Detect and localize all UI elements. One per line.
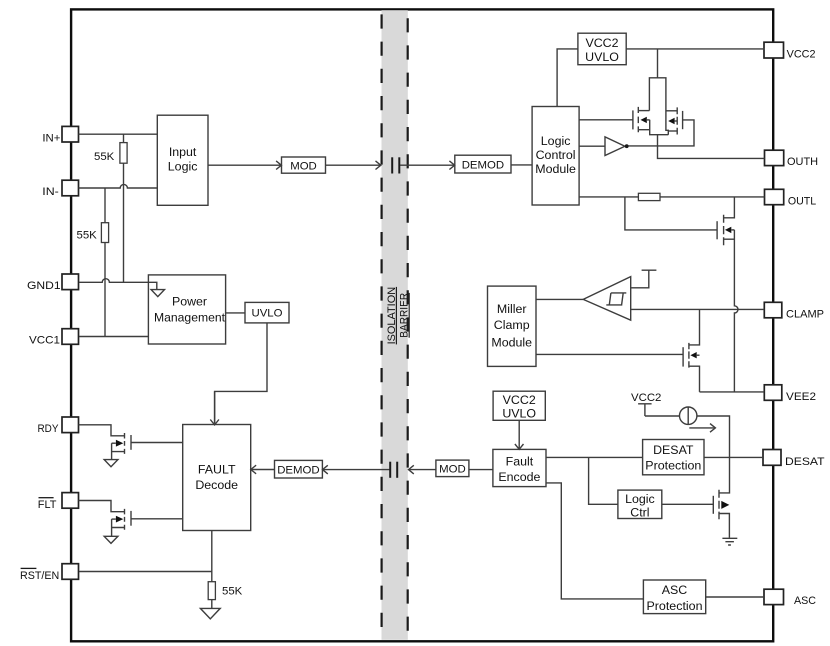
svg-text:DEMOD: DEMOD — [277, 465, 319, 477]
svg-text:IN+: IN+ — [42, 132, 60, 144]
transistor Q3 channel dashes — [723, 215, 725, 246]
wire Q6 gate to FAULT Decode — [131, 442, 183, 444]
wire GND1 to Power Management (hop over R2 leg) — [79, 279, 148, 283]
svg-text:DESAT: DESAT — [785, 456, 825, 468]
resistor R2 55K (IN- leg) — [101, 188, 108, 337]
svg-text:UVLO: UVLO — [585, 50, 619, 64]
wire fault node to Logic Ctrl — [589, 457, 618, 504]
pin OUTL — [765, 189, 817, 207]
wire VCC1 to Power Management — [79, 336, 148, 338]
svg-text:Module: Module — [535, 162, 576, 176]
wire DEMOD to Logic Control Module — [511, 164, 532, 166]
block U6 DEMOD (top) — [455, 155, 511, 173]
block U9 Miller Clamp Module — [488, 286, 537, 366]
svg-text:OUTH: OUTH — [787, 156, 818, 168]
svg-text:Decode: Decode — [195, 478, 238, 492]
pin DESAT — [763, 450, 825, 468]
svg-text:MOD: MOD — [290, 160, 317, 172]
block U16 ASC Protection — [643, 580, 705, 614]
totem-pole output stage body (Q1/Q2 common structure) — [649, 78, 668, 135]
svg-text:Logic: Logic — [625, 492, 655, 506]
wire Input Logic to MOD (arrow into MOD) — [208, 164, 281, 166]
wire GND1 inside PM to ground — [148, 282, 156, 289]
svg-text:55K: 55K — [77, 230, 98, 242]
pin RDY — [38, 417, 79, 435]
transistor Q4 body arrow (points left) — [690, 352, 696, 358]
capacitor C1 isolation barrier top — [392, 157, 399, 173]
isolation barrier gray band — [382, 10, 408, 640]
pin VCC2 — [764, 42, 816, 60]
transistor Q4 source stub down to VEE2 rail — [689, 366, 700, 392]
current direction arrow — [689, 427, 713, 429]
wire RDY pin to Q6 drain — [79, 425, 125, 436]
svg-text:BARRIER: BARRIER — [399, 293, 411, 338]
svg-text:RST/EN: RST/EN — [20, 570, 59, 582]
ground symbol (R3, open triangle) — [200, 608, 220, 618]
block U15 Logic Ctrl — [618, 490, 662, 519]
pin VEE2 — [764, 385, 816, 403]
svg-text:Ctrl: Ctrl — [630, 505, 649, 519]
transistor Q1 body arrow (points left) — [641, 117, 647, 123]
transistor Q5 channel dashes — [718, 490, 720, 519]
svg-text:RDY: RDY — [38, 423, 59, 435]
svg-text:VCC1: VCC1 — [29, 335, 60, 347]
pin OUTH — [765, 150, 819, 168]
resistor R4 (OUTL series) — [638, 193, 660, 200]
transistor Q7 gate bar — [130, 511, 132, 526]
VCC2 supply T stub — [638, 404, 652, 416]
wire MOD bottom to Fault Encode — [469, 469, 493, 471]
block U4 FAULT Decode — [183, 425, 251, 531]
svg-text:VCC2: VCC2 — [631, 392, 661, 404]
svg-text:VCC2: VCC2 — [585, 36, 618, 50]
pin IN- — [42, 180, 78, 198]
hysteresis glyph inside comparator — [606, 293, 626, 305]
block U13 DEMOD (bottom) — [275, 460, 323, 478]
wire RST/EN pin to R3 node — [79, 571, 212, 573]
transistor Q4 (Miller clamp) gate bar — [682, 347, 684, 366]
wire OUTL gate branch down-right to Q3 gate — [625, 197, 717, 230]
block U1 Input Logic — [157, 115, 208, 205]
transistor Q2 source stub — [668, 130, 677, 132]
transistor Q1 drain stub — [638, 110, 649, 112]
wire Miller Clamp Module to comparator — [536, 298, 583, 300]
transistor Q6 (RDY driver) channel dashes — [124, 433, 126, 454]
svg-text:Fault: Fault — [506, 455, 534, 469]
ground symbol (Q5 source, IEC) — [722, 538, 737, 545]
wire VCC2 rail to totem top — [657, 49, 659, 78]
wire LCM to Q1 gate — [579, 119, 633, 121]
wire IN+ to Input Logic — [79, 133, 158, 135]
comparator enable T stub — [631, 270, 657, 288]
svg-text:Protection: Protection — [645, 459, 701, 473]
transistor Q5 body arrow (points right) — [721, 501, 729, 509]
wire clamp FET drain up to CLAMP wire — [689, 309, 700, 345]
wire IN- to Input Logic (with hop over R1 leg) — [79, 184, 158, 188]
svg-text:Management: Management — [154, 311, 226, 325]
isolation barrier left dashed line — [381, 14, 383, 639]
wire Fault Encode to DESAT Protection — [546, 456, 643, 458]
transistor Q2 drain stub — [666, 110, 677, 112]
wire MCM to Q4 gate — [536, 353, 683, 355]
resistor R3 55K (RST/EN pulldown) — [208, 572, 215, 609]
transistor Q7 body arrow (points right) — [116, 516, 123, 523]
wire Power Management to UVLO — [226, 312, 245, 314]
wire VEE2 rail to VEE2 pin — [700, 391, 765, 393]
block U12 MOD (bottom) — [436, 460, 469, 477]
wire comparator output to CLAMP pin — [631, 308, 765, 310]
inverter U17 — [605, 137, 625, 156]
svg-text:55K: 55K — [94, 151, 115, 163]
wire DEMOD (bottom) to FAULT Decode (arrow) — [252, 469, 275, 471]
wire VCC2 stub to current source — [645, 415, 680, 417]
transistor Q4 channel dashes — [688, 343, 690, 368]
comparator U18 (points left) — [583, 277, 631, 321]
pin GND1 — [27, 274, 79, 292]
svg-text:Logic: Logic — [168, 160, 198, 174]
svg-text:Control: Control — [536, 148, 576, 162]
pin ASC — [764, 589, 816, 607]
svg-text:Clamp: Clamp — [494, 318, 530, 332]
transistor Q2 (right) gate bar — [682, 111, 684, 129]
block U8 VCC2 UVLO (top) — [578, 33, 626, 64]
wire totem output to OUTH pin — [658, 135, 765, 159]
wire VCC2 UVLO (bottom) to Fault Encode (arrow) — [518, 420, 520, 448]
transistor Q6 body arrow (points right) — [116, 440, 123, 447]
transistor Q6 source stub to ground — [112, 443, 125, 459]
svg-text:CLAMP: CLAMP — [786, 308, 824, 320]
wire Q3 source down to VEE2 rail (hop over CLAMP wire) — [734, 230, 738, 392]
svg-text:MOD: MOD — [439, 464, 466, 476]
wire R4 to OUTL pin — [660, 196, 765, 198]
transistor Q7 (FLT driver) channel dashes — [124, 509, 126, 530]
block U3 UVLO — [245, 302, 289, 323]
wire DESAT node down to Q5 drain — [719, 457, 730, 493]
svg-text:ISOLATION: ISOLATION — [386, 287, 398, 345]
transistor Q7 source stub to ground — [112, 519, 125, 536]
svg-text:ASC: ASC — [794, 595, 816, 607]
wire FLT pin to Q7 drain — [79, 501, 125, 512]
svg-text:VEE2: VEE2 — [786, 391, 816, 403]
svg-text:OUTL: OUTL — [788, 195, 816, 207]
transistor Q3 drain stub to OUTL rail — [724, 197, 735, 218]
svg-text:Miller: Miller — [497, 302, 527, 316]
wire DESAT Protection to DESAT pin — [704, 456, 763, 458]
svg-text:VCC2: VCC2 — [787, 49, 816, 61]
wire Logic Ctrl to Q5 gate — [662, 503, 714, 505]
wire current source to DESAT node — [697, 416, 730, 457]
transistor Q5 (DESAT discharge) gate bar — [712, 496, 714, 514]
block U2 Power Management — [148, 275, 225, 344]
block U11 Fault Encode — [493, 449, 546, 486]
wire LCM to inverter — [579, 145, 605, 147]
wire MOD to isolation cap (arrow right) — [326, 164, 380, 166]
pin RST/EN — [20, 564, 79, 582]
svg-text:UVLO: UVLO — [251, 308, 282, 320]
transistor Q6 gate bar — [130, 435, 132, 450]
ground symbol (Power Management) — [151, 290, 164, 297]
wire ASC Protection to ASC pin — [706, 596, 764, 598]
svg-text:55K: 55K — [222, 585, 243, 597]
transistor Q3 (OUTL pulldown) gate bar — [716, 221, 718, 239]
svg-text:DEMOD: DEMOD — [462, 159, 504, 171]
ground symbol (Q6, open triangle) — [104, 460, 118, 467]
wire UVLO to FAULT Decode (with arrow) — [215, 323, 267, 424]
svg-text:VCC2: VCC2 — [503, 393, 536, 407]
pin CLAMP — [764, 302, 824, 320]
wire FAULT Decode bottom to R3 node — [211, 531, 213, 572]
svg-text:IN-: IN- — [42, 186, 59, 198]
isolation barrier right dashed line — [407, 10, 409, 640]
wire barrier cap to DEMOD bottom (arrow into DEMOD) — [323, 469, 390, 471]
svg-text:Power: Power — [172, 295, 207, 309]
svg-text:Encode: Encode — [498, 470, 540, 484]
wire LCM to OUTL resistor rail — [579, 196, 638, 198]
wire MOD bottom to cap (arrow pointing left) — [409, 469, 436, 471]
svg-text:DESAT: DESAT — [653, 443, 694, 457]
block U7 Logic Control Module — [532, 107, 579, 206]
transistor Q2 body arrow (points left) — [668, 118, 674, 124]
wire VCC2 UVLO to VCC2 pin (VCC2 rail) — [626, 48, 764, 50]
block U10 VCC2 UVLO (bottom) — [493, 391, 545, 421]
ground symbol (Q7, open triangle) — [104, 536, 118, 543]
svg-text:Logic: Logic — [541, 134, 571, 148]
transistor Q3 body arrow (points left) — [725, 227, 731, 233]
pin IN+ — [42, 126, 78, 144]
svg-text:GND1: GND1 — [27, 280, 61, 292]
current source I1 (circle with bar) — [680, 407, 697, 424]
svg-text:Protection: Protection — [647, 599, 703, 613]
svg-text:Input: Input — [169, 145, 197, 159]
resistor R1 55K (IN+ pulldown) — [120, 134, 127, 282]
svg-text:FAULT: FAULT — [198, 462, 236, 476]
wire cap to DEMOD (arrow into DEMOD) — [400, 164, 454, 166]
wire Q2 gate loop to inverter output — [628, 120, 694, 146]
svg-text:UVLO: UVLO — [502, 407, 536, 421]
transistor Q1 source stub — [638, 129, 649, 131]
wire VCC2 UVLO to Logic Control Module — [557, 49, 578, 107]
block U14 DESAT Protection — [643, 440, 704, 475]
svg-text:Module: Module — [491, 336, 532, 350]
transistor Q3 source stub — [724, 238, 735, 240]
pin VCC1 — [29, 329, 79, 347]
transistor Q1 channel dashes — [637, 107, 639, 132]
transistor Q1 (left, P-ch) gate bar — [632, 110, 634, 129]
block U5 MOD (top) — [282, 157, 326, 173]
transistor Q2 channel dashes — [676, 107, 678, 134]
wire Q7 gate to FAULT Decode — [131, 518, 183, 520]
capacitor C2 isolation barrier bottom — [390, 462, 397, 478]
pin FLT — [38, 493, 79, 512]
svg-text:ASC: ASC — [662, 583, 688, 597]
transistor Q5 source stub to ground — [719, 514, 729, 538]
wire Fault Encode to ASC Protection — [546, 483, 643, 599]
svg-text:FLT: FLT — [38, 499, 57, 511]
